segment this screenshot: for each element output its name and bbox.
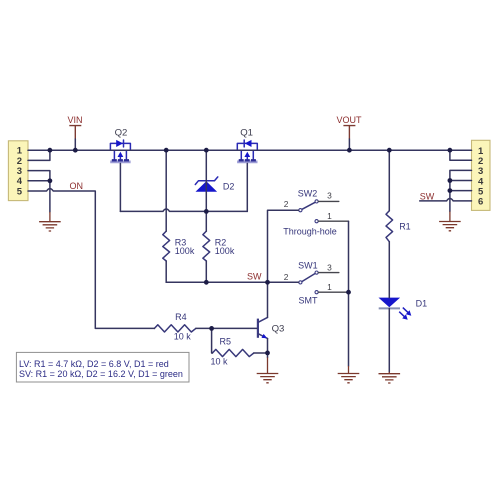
ground LED: [379, 372, 401, 383]
node SW1 pin1 gnd rail: [346, 290, 351, 295]
svg-text:1: 1: [327, 282, 332, 292]
transistor Q3 NPN: [258, 317, 268, 338]
body diode triangle (points left): [245, 140, 252, 147]
wire SW net right segment with hop: [420, 199, 472, 201]
transistor Q1 p-channel MOSFET: [237, 140, 257, 162]
svg-text:VOUT: VOUT: [336, 115, 362, 125]
ground left connector: [39, 212, 61, 231]
resistor R1 zigzag: [386, 211, 393, 242]
node right pin4: [448, 178, 453, 183]
svg-text:ON: ON: [70, 181, 84, 191]
transistor Q2 p-channel MOSFET: [110, 140, 130, 162]
svg-text:6: 6: [478, 197, 483, 208]
wire D2/R2 branch: [205, 150, 207, 231]
wire R5 branch: [211, 328, 214, 353]
svg-text:3: 3: [327, 190, 332, 200]
wire right pin2 join: [450, 150, 472, 160]
body diode loop: [237, 143, 257, 150]
node D2 rail tap: [204, 148, 209, 153]
svg-text:R1: R1: [399, 222, 411, 232]
svg-text:Q3: Q3: [272, 324, 285, 335]
node right pin2 join: [448, 148, 453, 153]
supply symbol VOUT: [343, 126, 355, 151]
resistor R4 zigzag: [154, 325, 195, 332]
node SW-collector: [265, 280, 270, 285]
wire SW2 pin3 stub: [318, 200, 338, 202]
wire Q3 collector up to SW: [267, 282, 269, 317]
svg-text:1: 1: [327, 211, 332, 221]
wire R3 bottom to SW line: [165, 261, 167, 282]
wire SW net horizontal: [166, 281, 298, 283]
svg-text:SW2: SW2: [298, 188, 318, 198]
svg-text:SW: SW: [247, 272, 262, 282]
wire R3 branch top: [165, 150, 167, 231]
node left pin4: [48, 178, 53, 183]
svg-text:VIN: VIN: [67, 115, 82, 125]
wire left pin4 stub: [28, 180, 50, 182]
contact segments: [112, 159, 129, 161]
channel verticals: [113, 150, 115, 159]
wire left pin2 join: [28, 150, 50, 160]
svg-text:Q2: Q2: [115, 128, 128, 139]
node VIN tap: [73, 148, 78, 153]
switch SW1 SMT slide switch: [299, 271, 318, 294]
supply symbol VIN: [69, 126, 81, 151]
node R4-R5-base: [209, 326, 214, 331]
svg-text:LV: R1 = 4.7 kΩ, D2 = 6.8 V, D: LV: R1 = 4.7 kΩ, D2 = 6.8 V, D1 = red: [19, 359, 169, 369]
svg-text:10 k: 10 k: [211, 356, 229, 366]
wire right pin5 stub: [450, 190, 472, 192]
wire right pin4 stub: [450, 180, 472, 182]
note box LV/SV values: [16, 352, 189, 382]
wire Q2 gate down: [119, 163, 121, 211]
resistor R2 zigzag: [203, 231, 210, 261]
node VOUT tap: [347, 148, 352, 153]
wire gate line Q2-Q1: [120, 209, 247, 211]
emission arrow 2: [399, 312, 404, 317]
ground Q3 emitter: [257, 358, 279, 383]
svg-text:D1: D1: [416, 299, 428, 309]
bulk arrow up: [119, 155, 121, 159]
svg-text:Through-hole: Through-hole: [283, 226, 337, 236]
wire Q1 gate down: [246, 163, 248, 211]
node gate-D2: [204, 209, 209, 214]
resistor R3 zigzag: [163, 231, 170, 261]
gate plate (light): [110, 160, 130, 163]
wire ON net: pin5 hop, right, down, to R4: [28, 189, 154, 329]
svg-text:SMT: SMT: [299, 295, 319, 305]
svg-text:2: 2: [284, 199, 289, 209]
wire VIN/VOUT top rail: [28, 149, 472, 151]
ground switches: [338, 366, 360, 383]
node R1 rail tap: [387, 148, 392, 153]
body diode cathode bar: [243, 140, 245, 147]
zener diode D2: [195, 177, 218, 192]
ground right connector: [439, 212, 461, 231]
wire SW1 pin1: [318, 291, 348, 293]
connector J-right 6-pin output header: [472, 140, 491, 210]
wire LED to ground: [388, 308, 390, 372]
connector J-left 5-pin input header: [8, 141, 28, 201]
gate plate (light): [237, 160, 257, 163]
wire left pin3 to ground: [28, 171, 50, 212]
wire R5 to emitter: [254, 352, 268, 354]
wire R1 branch top: [388, 150, 390, 211]
node pin2-left join: [48, 148, 53, 153]
wire Q3 emitter down: [267, 339, 269, 358]
body diode loop: [110, 143, 130, 150]
svg-text:100k: 100k: [215, 246, 235, 256]
svg-text:10 k: 10 k: [174, 332, 192, 342]
bulk arrow up: [246, 155, 248, 159]
svg-text:SV: R1 = 20 kΩ, D2 = 16.2 V, D: SV: R1 = 20 kΩ, D2 = 16.2 V, D1 = green: [19, 369, 183, 379]
svg-text:R4: R4: [175, 312, 187, 322]
node right pin5: [448, 188, 453, 193]
wire R2 bottom: [205, 261, 207, 282]
body diode triangle (points right): [116, 140, 123, 147]
svg-text:R5: R5: [220, 336, 232, 346]
contact segments: [239, 159, 256, 161]
LED D1: [379, 298, 412, 320]
node R3 rail tap: [164, 148, 169, 153]
emission arrow 1: [403, 308, 408, 313]
svg-text:D2: D2: [223, 181, 235, 191]
channel verticals: [240, 150, 242, 159]
wire SW2 pin2 to SW junction: [268, 210, 299, 282]
svg-text:Q1: Q1: [240, 128, 253, 139]
wire SW1 pin3 stub: [318, 272, 338, 274]
svg-text:100k: 100k: [175, 246, 195, 256]
body diode cathode bar: [123, 140, 125, 147]
svg-text:SW1: SW1: [298, 260, 318, 270]
svg-text:SW: SW: [420, 191, 435, 201]
wire right pin3 to ground: [450, 170, 472, 211]
wire R1 to LED: [388, 242, 390, 298]
wire Q3 base from R4: [196, 327, 257, 329]
svg-text:5: 5: [17, 186, 23, 197]
node emitter-R5: [265, 351, 270, 356]
wire SW2 pin1 to ground rail: [318, 220, 348, 222]
svg-text:3: 3: [327, 263, 332, 273]
resistor R5 zigzag: [212, 349, 253, 356]
switch SW2 through-hole slide switch: [299, 200, 318, 223]
svg-text:2: 2: [284, 272, 289, 282]
node SW-R2: [204, 280, 209, 285]
